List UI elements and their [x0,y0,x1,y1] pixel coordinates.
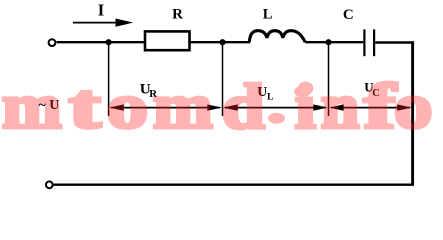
svg-text:R: R [172,6,183,22]
svg-text:t: t [69,71,101,142]
svg-text:f: f [364,71,397,142]
svg-text:C: C [343,7,354,23]
svg-text:d: d [222,72,265,143]
svg-text:m: m [2,70,62,142]
svg-text:o: o [107,70,148,141]
svg-text:L: L [263,7,273,23]
svg-text:I: I [98,1,104,20]
svg-text:m: m [153,70,213,142]
svg-text:i: i [295,71,316,142]
svg-text:L: L [267,92,274,103]
svg-text:o: o [394,72,432,143]
svg-text:n: n [321,72,359,142]
